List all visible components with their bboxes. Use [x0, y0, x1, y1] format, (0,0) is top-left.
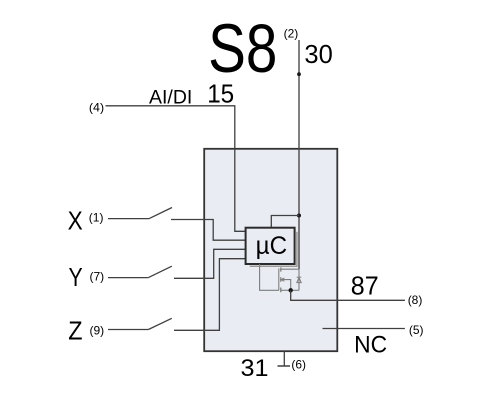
wire source dot to body diode: [291, 289, 299, 291]
wire Z to uC: [174, 259, 246, 331]
MOSFET Q1 source stub: [281, 289, 291, 291]
switch Y blade: [148, 266, 171, 277]
ground symbol stem: [283, 351, 285, 366]
svg-text:NC: NC: [354, 331, 387, 358]
svg-text:(1): (1): [89, 210, 104, 224]
svg-text:(2): (2): [284, 27, 299, 41]
svg-text:15: 15: [207, 81, 234, 109]
wire terminal 15: [106, 106, 246, 232]
switch Z blade: [148, 318, 171, 329]
wire Y left segment: [108, 277, 148, 279]
svg-text:31: 31: [241, 355, 269, 382]
microcontroller uC box: [246, 228, 295, 264]
ground symbol bar: [278, 365, 291, 367]
svg-text:Z: Z: [68, 317, 82, 345]
switch X blade: [149, 208, 172, 219]
svg-text:(7): (7): [90, 270, 105, 284]
node dot top of 30 wire: [297, 72, 301, 76]
svg-text:(5): (5): [409, 323, 424, 337]
body diode D1 triangle: [297, 278, 301, 283]
svg-text:(9): (9): [90, 323, 105, 337]
wire terminal 30 vertical: [298, 40, 300, 269]
wire X to uC: [171, 220, 246, 241]
node junction source: [289, 288, 293, 292]
MOSFET Q1 channel segments: [280, 268, 282, 293]
uC box shadow: [250, 232, 297, 266]
svg-text:(8): (8): [408, 293, 423, 307]
svg-text:(6): (6): [291, 358, 306, 372]
wire uC supply from 30: [271, 216, 299, 228]
MOSFET Q1 body arrow: [281, 280, 291, 291]
wire gate from uC: [260, 264, 279, 290]
relay body box: [204, 149, 337, 351]
svg-text:X: X: [68, 207, 83, 235]
MOSFET Q1 drain stub: [281, 268, 299, 270]
wire X left segment: [108, 218, 149, 220]
wire output 87: [291, 290, 405, 300]
svg-text:87: 87: [351, 273, 379, 301]
wire Y to uC: [174, 249, 246, 278]
svg-text:Y: Y: [69, 264, 83, 292]
node junction 30 to uC supply: [297, 214, 301, 218]
MOSFET Q1 gate bar: [278, 268, 280, 290]
svg-text:S8: S8: [208, 10, 277, 87]
body diode D1 line: [298, 269, 300, 290]
body diode D1 cathode bar: [297, 276, 302, 278]
svg-text:(4): (4): [89, 101, 104, 115]
svg-text:30: 30: [304, 41, 332, 69]
wire NC stub: [323, 328, 405, 330]
wire Z left segment: [108, 329, 148, 331]
svg-text:µC: µC: [256, 232, 288, 260]
